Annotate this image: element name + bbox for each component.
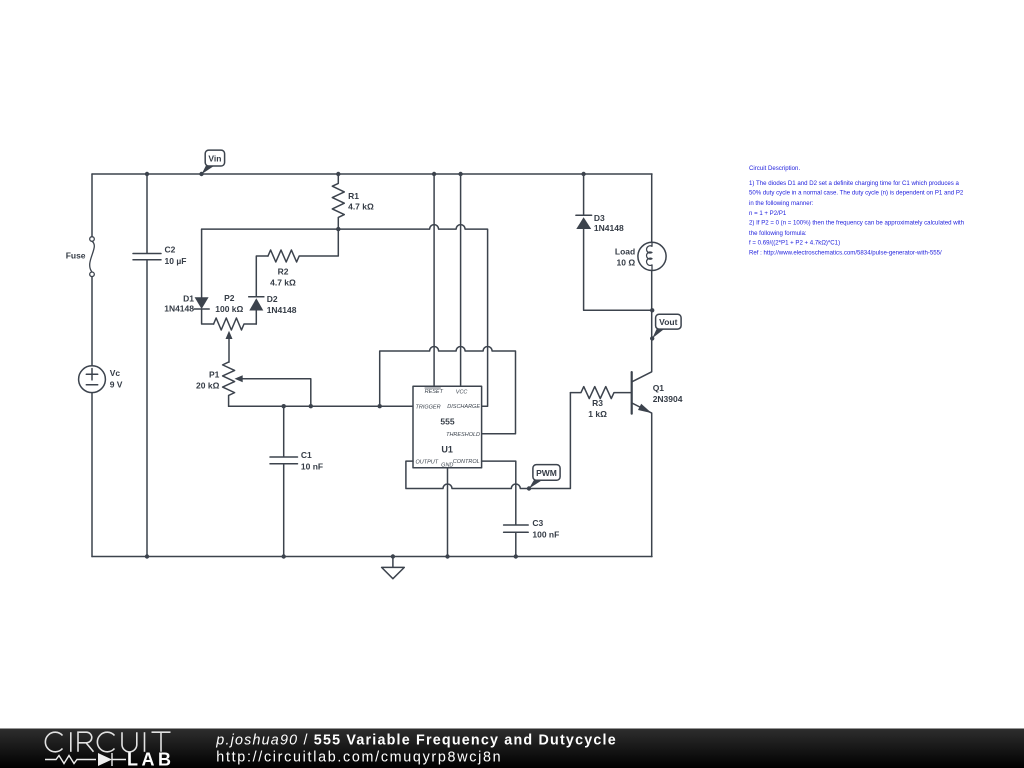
svg-text:f = 0.69/((2*P1 + P2 + 4.7kΩ)*: f = 0.69/((2*P1 + P2 + 4.7kΩ)*C1) — [749, 240, 840, 247]
svg-text:C3: C3 — [532, 518, 543, 528]
svg-text:4.7 kΩ: 4.7 kΩ — [348, 202, 374, 212]
svg-text:1N4148: 1N4148 — [594, 223, 624, 233]
svg-text:100 nF: 100 nF — [532, 529, 559, 539]
svg-text:Vout: Vout — [659, 317, 677, 327]
svg-text:C2: C2 — [165, 245, 176, 255]
svg-text:Q1: Q1 — [653, 383, 665, 393]
svg-text:Vc: Vc — [110, 368, 121, 378]
svg-text:9 V: 9 V — [110, 379, 123, 389]
svg-text:the following formula:: the following formula: — [749, 230, 807, 237]
svg-text:C1: C1 — [301, 450, 312, 460]
svg-text:OUTPUT: OUTPUT — [416, 459, 439, 465]
svg-text:20 kΩ: 20 kΩ — [196, 381, 220, 391]
svg-text:Vin: Vin — [208, 153, 221, 163]
svg-text:D3: D3 — [594, 213, 605, 223]
svg-text:1 kΩ: 1 kΩ — [588, 409, 607, 419]
svg-text:2N3904: 2N3904 — [653, 394, 683, 404]
svg-text:100 kΩ: 100 kΩ — [215, 304, 243, 314]
svg-text:U1: U1 — [441, 445, 453, 455]
svg-text:R3: R3 — [592, 398, 603, 408]
svg-text:555: 555 — [440, 416, 454, 426]
svg-text:4.7 kΩ: 4.7 kΩ — [270, 278, 296, 288]
svg-text:LAB: LAB — [127, 749, 175, 768]
svg-text:TRIGGER: TRIGGER — [416, 405, 441, 411]
svg-text:2) If P2 = 0 (n = 100%) then t: 2) If P2 = 0 (n = 100%) then the frequen… — [749, 220, 964, 227]
svg-text:1N4148: 1N4148 — [267, 305, 297, 315]
svg-text:VCC: VCC — [456, 389, 468, 395]
svg-text:D1: D1 — [183, 293, 194, 303]
svg-text:Fuse: Fuse — [66, 251, 86, 261]
svg-text:P1: P1 — [209, 370, 220, 380]
svg-text:in the following manner:: in the following manner: — [749, 200, 814, 207]
svg-text:50% duty cycle in a normal cas: 50% duty cycle in a normal case. The dut… — [749, 190, 964, 197]
svg-text:p.joshua90 / 555 Variable Freq: p.joshua90 / 555 Variable Frequency and … — [215, 732, 617, 748]
svg-text:RESET: RESET — [425, 389, 444, 395]
svg-text:n = 1 + P2/P1: n = 1 + P2/P1 — [749, 210, 787, 217]
svg-text:Load: Load — [615, 247, 635, 257]
svg-text:Circuit Description.: Circuit Description. — [749, 165, 800, 172]
svg-text:PWM: PWM — [536, 468, 557, 478]
svg-text:10 Ω: 10 Ω — [617, 258, 636, 268]
svg-text:http://circuitlab.com/cmuqyrp8: http://circuitlab.com/cmuqyrp8wcj8n — [216, 749, 502, 765]
svg-text:R1: R1 — [348, 191, 359, 201]
svg-text:10 nF: 10 nF — [301, 461, 323, 471]
svg-text:THRESHOLD: THRESHOLD — [446, 432, 480, 438]
svg-text:D2: D2 — [267, 294, 278, 304]
svg-text:R2: R2 — [278, 267, 289, 277]
svg-text:1) The diodes D1 and D2 set a: 1) The diodes D1 and D2 set a definite c… — [749, 180, 960, 187]
svg-text:CONTROL: CONTROL — [453, 459, 480, 465]
svg-text:P2: P2 — [224, 293, 235, 303]
svg-text:GND: GND — [441, 462, 453, 468]
svg-text:DISCHARGE: DISCHARGE — [447, 404, 480, 410]
svg-text:Ref : http://www.electroschema: Ref : http://www.electroschematics.com/5… — [749, 249, 942, 256]
svg-text:1N4148: 1N4148 — [164, 304, 194, 314]
svg-text:10 µF: 10 µF — [165, 256, 187, 266]
